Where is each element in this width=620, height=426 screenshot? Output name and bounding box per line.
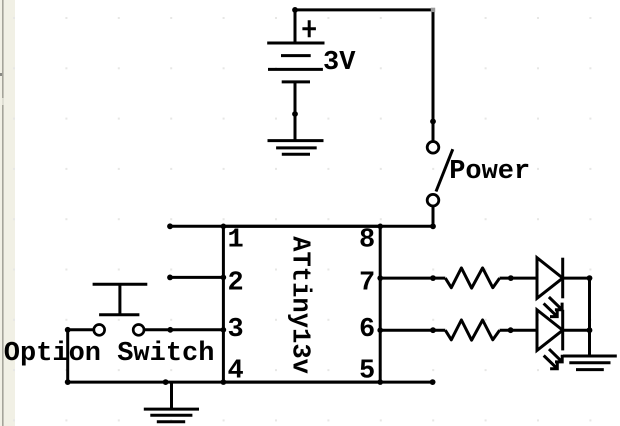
- switch S1 contact bottom: [427, 194, 439, 206]
- junction bus LED2: [587, 327, 593, 333]
- resistor R2: [445, 320, 499, 340]
- svg-text:ATtiny13v: ATtiny13v: [285, 236, 314, 374]
- battery B1 plate short: [281, 54, 311, 57]
- junction option switch bottom left: [65, 379, 71, 385]
- junction ground GND2: [163, 379, 169, 385]
- svg-text:Option Switch: Option Switch: [4, 339, 215, 369]
- svg-text:1: 1: [228, 225, 244, 255]
- svg-text:6: 6: [359, 315, 375, 345]
- junction switch bottom row A: [430, 223, 436, 229]
- junction R2 right: [508, 327, 514, 333]
- LED D2 cathode bar: [561, 310, 564, 351]
- node pin1 wire end: [167, 223, 173, 229]
- LED D1 arrow 2: [544, 303, 558, 316]
- LED D2 arrow 2: [544, 356, 558, 369]
- node pin2 wire end: [167, 275, 173, 281]
- resistor R1: [445, 268, 499, 288]
- junction battery bottom: [292, 111, 298, 117]
- LED D1 triangle: [537, 258, 563, 299]
- left border line: [2, 0, 4, 426]
- ground GND1 bar2: [276, 146, 317, 149]
- svg-text:3V: 3V: [323, 48, 356, 78]
- LED D1 cathode bar: [561, 258, 564, 299]
- node top corner handle: [431, 8, 435, 12]
- LED D2 arrow 1: [549, 349, 562, 362]
- ground GND3 bar1: [563, 355, 617, 358]
- junction option switch top left: [65, 327, 71, 333]
- ground GND1 bar1: [268, 139, 324, 142]
- wire battery bottom stem: [294, 82, 297, 141]
- svg-text:5: 5: [359, 356, 375, 386]
- wire LED1 to bus: [563, 277, 590, 280]
- battery plus sign: [302, 20, 316, 37]
- junction pin6 at IC: [377, 327, 383, 333]
- wire switch bottom stub: [432, 206, 435, 226]
- LED D2 triangle: [537, 310, 563, 351]
- ground GND3 bar3: [576, 368, 604, 371]
- junction pin6 wire: [430, 327, 436, 333]
- junction R1 right: [508, 275, 514, 281]
- left window strip: [0, 0, 15, 426]
- svg-text:Power: Power: [449, 157, 530, 187]
- wire option switch left: [68, 328, 94, 331]
- ground GND2 bar2: [150, 414, 192, 417]
- wire LED2 to bus: [563, 329, 590, 332]
- wire row D bottom pin4 pin5: [68, 381, 433, 384]
- junction pin3 at IC: [221, 327, 227, 333]
- switch S2 button bar top: [93, 283, 148, 286]
- op-amp IC body ATtiny13v: [223, 226, 380, 382]
- junction bus LED1: [587, 275, 593, 281]
- junction battery top: [292, 7, 298, 13]
- svg-text:4: 4: [228, 356, 244, 386]
- wire R1 to LED1: [500, 277, 537, 280]
- switch S1 lever: [436, 149, 453, 191]
- svg-text:8: 8: [359, 225, 375, 255]
- ground GND3 bar2: [569, 361, 610, 364]
- wire pin3 to option switch: [144, 328, 223, 331]
- svg-text:7: 7: [359, 268, 375, 298]
- ground GND2 stem: [170, 382, 173, 409]
- battery B1 plate short bottom: [282, 80, 310, 83]
- junction pin4 at IC: [221, 379, 227, 385]
- ground GND2 bar1: [144, 408, 199, 411]
- junction pin2 at IC: [221, 275, 227, 281]
- wire battery top stem: [294, 10, 297, 43]
- junction pin1 at IC: [221, 224, 227, 230]
- wire LED bus vertical: [588, 278, 591, 356]
- wire R2 to LED2: [500, 329, 537, 332]
- switch S2 contact left: [94, 325, 105, 336]
- battery B1 plate long: [268, 68, 323, 71]
- wire switch vertical drop: [432, 10, 435, 142]
- wire pin2 stub: [170, 276, 223, 279]
- svg-text:3: 3: [228, 315, 244, 345]
- wire pin6 to R2: [380, 329, 445, 332]
- junction pin5 at IC: [377, 379, 383, 385]
- wire pin7 to R1: [380, 277, 445, 280]
- svg-text:2: 2: [228, 268, 244, 298]
- wire top horizontal from battery to switch: [295, 8, 433, 11]
- junction pin7 wire: [430, 275, 436, 281]
- switch S1 contact top: [427, 142, 439, 154]
- switch S2 contact right: [133, 325, 144, 336]
- ground GND2 bar3: [157, 420, 185, 423]
- wire row A pin1 to pin8 to switch: [170, 225, 433, 228]
- LED D1 arrow 1: [549, 297, 562, 310]
- switch S2 button stem: [118, 284, 121, 315]
- switch S2 button bar bottom: [99, 313, 139, 316]
- wire option switch left vertical: [66, 330, 69, 382]
- junction switch top: [430, 119, 436, 125]
- node pin5 wire end: [430, 379, 436, 385]
- junction pin7 at IC: [377, 275, 383, 281]
- junction pin8 at IC: [377, 224, 383, 230]
- junction pin3 wire: [167, 327, 173, 333]
- battery B1 plate long top: [267, 42, 324, 45]
- ground GND1 bar3: [282, 153, 310, 156]
